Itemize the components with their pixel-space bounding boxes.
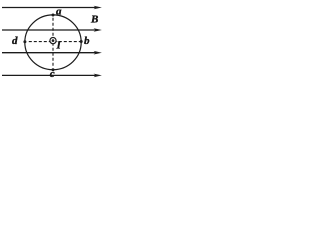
node a (dot, top of circle)	[52, 14, 55, 17]
field line 2	[2, 28, 102, 32]
node d (dot, left of circle)	[23, 40, 26, 43]
field line 4 (bottom)	[2, 74, 102, 78]
svg-text:b: b	[84, 35, 90, 47]
svg-text:c: c	[50, 68, 55, 80]
svg-text:d: d	[12, 35, 18, 47]
field line 3	[2, 51, 102, 55]
svg-text:a: a	[56, 5, 62, 17]
dashed diameter a-c (vertical)	[52, 18, 54, 68]
dashed diameter d-b (horizontal)	[29, 41, 81, 43]
svg-text:B: B	[90, 14, 98, 26]
field line 1 (top, B)	[2, 6, 102, 10]
node b (dot, right of circle)	[80, 40, 83, 43]
current symbol (wire, current out of page)	[50, 38, 56, 44]
node c (dot, bottom of circle)	[52, 68, 55, 71]
circle region boundary	[25, 15, 81, 70]
svg-text:I: I	[56, 40, 62, 52]
